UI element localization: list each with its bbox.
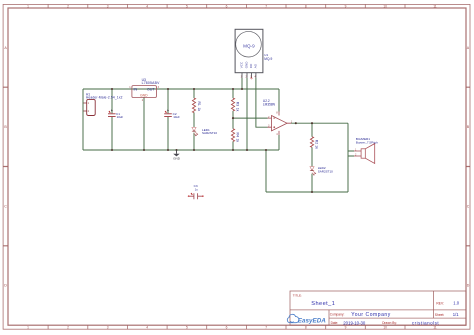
svg-text:SAR2ST10: SAR2ST10 xyxy=(318,169,333,173)
svg-text:10uF: 10uF xyxy=(173,115,180,119)
capacitor C2 xyxy=(164,110,180,120)
svg-text:1: 1 xyxy=(27,4,29,8)
junction MQ9 GND bottom rail xyxy=(246,149,248,151)
wire loop drop from bottom rail xyxy=(265,150,267,192)
wire R2/LED2 column xyxy=(311,123,313,192)
svg-text:11: 11 xyxy=(433,4,437,8)
wire op-amp output to buzzer xyxy=(291,122,348,124)
svg-text:1k: 1k xyxy=(236,139,240,143)
junction GND stem bottom rail xyxy=(175,149,177,151)
frame zone numbers bottom xyxy=(27,326,437,330)
svg-text:EasyEDA: EasyEDA xyxy=(298,317,326,324)
svg-text:8: 8 xyxy=(305,4,307,8)
svg-text:REV:: REV: xyxy=(436,301,444,305)
svg-text:10: 10 xyxy=(383,326,387,330)
svg-text:9: 9 xyxy=(345,326,347,330)
svg-text:R2: R2 xyxy=(315,140,319,144)
svg-text:10uF: 10uF xyxy=(117,115,124,119)
svg-text:2: 2 xyxy=(67,4,69,8)
svg-text:5: 5 xyxy=(186,326,188,330)
resistor R4 xyxy=(231,129,239,143)
buzzer BUZZER1 xyxy=(354,137,378,164)
svg-text:1k: 1k xyxy=(197,108,201,112)
wire divider tap to op-amp pin2 xyxy=(233,117,268,119)
resistor R2 xyxy=(310,137,318,149)
junction LED1 bottom rail xyxy=(193,149,195,151)
svg-text:8: 8 xyxy=(305,326,307,330)
svg-text:10: 10 xyxy=(383,4,387,8)
wire buzzer pin stubs xyxy=(348,151,354,156)
svg-text:VCC: VCC xyxy=(240,61,244,68)
svg-text:MQ-9: MQ-9 xyxy=(264,57,272,61)
svg-text:cristianolst: cristianolst xyxy=(412,320,440,325)
wire buzzer loop bottom xyxy=(266,191,348,193)
wire op-amp pin4 to bottom rail xyxy=(278,135,280,150)
frame zone letters right xyxy=(467,46,470,288)
wire R3/R4 column xyxy=(232,89,234,150)
junction R4 bottom rail xyxy=(232,149,234,151)
svg-text:3: 3 xyxy=(107,4,109,8)
junction C1 top rail xyxy=(111,88,113,90)
wire MQ9 VCC down to rail xyxy=(241,78,243,89)
svg-text:Sheet_1: Sheet_1 xyxy=(311,301,335,307)
wire MQ9 AO to op-amp pin3 xyxy=(256,78,268,127)
svg-text:2: 2 xyxy=(67,326,69,330)
wire U3 GND pin to bottom rail xyxy=(143,97,145,150)
svg-text:Company:: Company: xyxy=(330,312,345,316)
wire R1/LED1 column xyxy=(193,89,195,150)
wire C2 column xyxy=(167,89,169,150)
svg-text:C3: C3 xyxy=(194,184,198,188)
capacitor C1 xyxy=(108,110,123,120)
svg-text:TITLE:: TITLE: xyxy=(293,293,302,297)
top/bottom column ticks xyxy=(48,5,405,9)
svg-text:3: 3 xyxy=(107,326,109,330)
svg-text:DO: DO xyxy=(249,63,253,68)
wire buzzer right vertical xyxy=(347,123,349,192)
junction R2 output node xyxy=(311,122,313,124)
junction R1 top rail xyxy=(193,88,195,90)
junction MQ9 VCC top rail xyxy=(241,88,243,90)
svg-text:MQ-9: MQ-9 xyxy=(243,43,255,48)
svg-text:6: 6 xyxy=(226,4,228,8)
junction divider tap xyxy=(232,117,234,119)
svg-text:R4: R4 xyxy=(236,133,240,137)
svg-text:Your Company: Your Company xyxy=(351,312,391,318)
svg-text:1k: 1k xyxy=(236,108,240,112)
svg-text:C: C xyxy=(467,204,470,208)
svg-text:9: 9 xyxy=(345,4,347,8)
svg-text:6: 6 xyxy=(226,326,228,330)
svg-text:1k: 1k xyxy=(315,145,319,149)
svg-text:11: 11 xyxy=(433,326,437,330)
svg-text:7: 7 xyxy=(265,326,267,330)
svg-text:Date:: Date: xyxy=(331,321,339,325)
junction R3 top rail xyxy=(232,88,234,90)
junction C2 bottom rail xyxy=(167,149,169,151)
wire top rail xyxy=(83,88,279,90)
svg-text:OUT: OUT xyxy=(147,87,155,91)
wire top rail to op-amp pin8 xyxy=(278,89,280,112)
svg-text:5: 5 xyxy=(186,4,188,8)
svg-text:L7805ABV: L7805ABV xyxy=(142,81,160,85)
svg-text:IN: IN xyxy=(134,87,138,91)
svg-text:Buzzer_7.5Pitch: Buzzer_7.5Pitch xyxy=(356,141,378,145)
svg-text:Header-Male-2.54_1x2: Header-Male-2.54_1x2 xyxy=(86,95,123,99)
EasyEDA logo xyxy=(287,314,326,324)
junction U3 GND bottom rail xyxy=(143,149,145,151)
svg-text:1.0: 1.0 xyxy=(453,301,459,306)
svg-text:R1: R1 xyxy=(197,102,201,106)
wire MQ9 GND down to bottom rail xyxy=(246,78,248,150)
svg-text:GND: GND xyxy=(140,94,148,98)
svg-text:R3: R3 xyxy=(236,102,240,106)
LED LED1 xyxy=(192,127,217,136)
svg-text:4: 4 xyxy=(146,326,148,330)
resistor R1 xyxy=(192,98,201,112)
op-amp U2.2 xyxy=(263,99,293,136)
svg-text:4: 4 xyxy=(146,4,148,8)
wire left drop to bottom rail xyxy=(82,89,84,150)
junction loop drop bottom rail xyxy=(265,149,267,151)
svg-text:Sheet:: Sheet: xyxy=(435,313,445,317)
svg-text:1u: 1u xyxy=(195,188,198,192)
junction C2 top rail xyxy=(167,88,169,90)
voltage regulator U3 xyxy=(129,78,160,102)
connector H1 xyxy=(83,92,122,115)
svg-text:GND: GND xyxy=(245,61,249,69)
capacitor C3 (floating) xyxy=(188,184,203,199)
ground symbol xyxy=(173,150,181,161)
svg-text:Drawn By:: Drawn By: xyxy=(382,321,397,325)
junction LED2 loop bottom xyxy=(311,191,313,193)
svg-text:C: C xyxy=(4,204,7,208)
svg-text:GND: GND xyxy=(173,157,181,161)
svg-text:1/1: 1/1 xyxy=(453,312,459,317)
svg-text:D: D xyxy=(467,284,470,288)
svg-text:AO: AO xyxy=(254,63,258,68)
svg-text:SAR2ST10: SAR2ST10 xyxy=(202,131,217,135)
resistor R3 xyxy=(231,98,239,112)
svg-text:2019-10-30: 2019-10-30 xyxy=(343,320,366,325)
gas sensor U1 MQ-9 xyxy=(235,29,272,79)
junction C1 bottom rail xyxy=(111,149,113,151)
LED LED2 xyxy=(310,166,333,175)
left/right row ticks xyxy=(3,87,8,246)
svg-text:D: D xyxy=(4,284,7,288)
frame zone numbers top xyxy=(27,4,437,8)
svg-text:1: 1 xyxy=(27,326,29,330)
frame zone letters left xyxy=(4,46,7,288)
wire bottom rail xyxy=(83,149,279,151)
junction op-amp output xyxy=(295,122,297,124)
svg-text:7: 7 xyxy=(265,4,267,8)
wire C1 column xyxy=(111,89,113,150)
svg-text:LM358N: LM358N xyxy=(263,102,276,106)
